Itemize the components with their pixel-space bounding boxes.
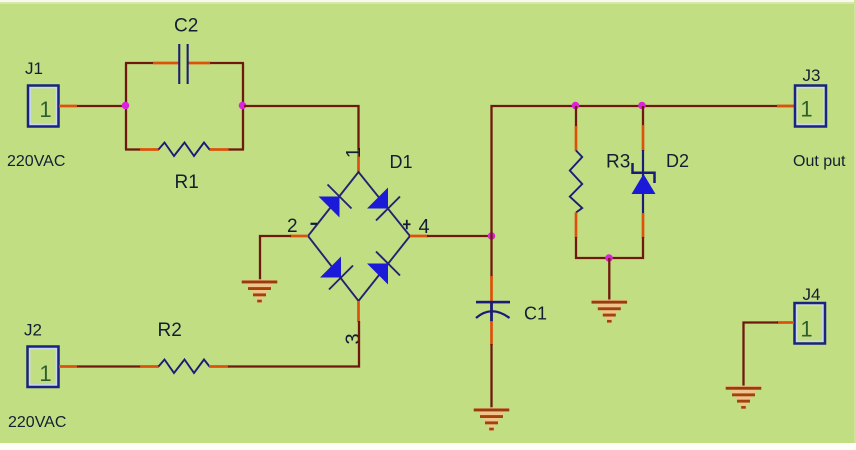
wire RC loop right vertical [242,63,244,150]
svg-text:J4: J4 [803,285,821,304]
pin D1-1 [357,150,360,172]
wire node B to bridge top [244,106,359,151]
capacitor C2 [153,44,210,84]
svg-text:220VAC: 220VAC [7,153,65,170]
pin J1-1 [59,105,77,108]
svg-text:R2: R2 [158,320,182,341]
wire node C down to C1 [490,236,492,278]
pin J3-1 [777,105,794,108]
svg-text:1: 1 [800,317,812,342]
zener diode D2 [632,106,656,259]
diode D1 bottom-right [367,252,400,285]
svg-text:2: 2 [287,216,298,237]
top white border line [0,0,856,2]
svg-text:220VAC: 220VAC [8,414,66,431]
plus sign [403,220,411,230]
svg-text:J1: J1 [25,59,43,78]
svg-text:D1: D1 [390,152,413,172]
connector J3 [795,86,826,127]
svg-text:1: 1 [800,97,812,122]
node D junction (R3 tap) [572,102,580,110]
node A junction [122,102,130,110]
resistor R2 [140,360,229,374]
svg-text:1: 1 [39,361,51,386]
wire R2 to bridge pin3 [228,321,359,367]
svg-text:Out put: Out put [793,153,846,170]
pin C1 bottom [490,321,493,345]
connector J4 [795,303,826,344]
svg-text:D2: D2 [666,151,689,171]
wire node F to ground [608,258,610,301]
wire J2 to R2 [77,365,141,367]
svg-text:C1: C1 [524,304,547,324]
minus sign [311,223,318,225]
wire J4 to ground [744,323,779,388]
wire C1 to ground [490,344,492,409]
diode D1 bottom-left [320,257,353,290]
svg-text:1: 1 [39,97,51,122]
node B junction [239,102,247,110]
resistor R1 [140,143,229,157]
pin C1 top [490,276,493,301]
right edge light strip [854,0,856,443]
wire RC loop bottom right segment [228,148,244,150]
wire pin2 to ground [260,236,291,281]
wire RC loop top right segment [209,62,244,64]
connector J2 [28,347,59,388]
resistor R3 [570,106,582,259]
pin J2-1 [59,365,77,368]
pin D1-3 [357,301,360,322]
bridge D1 outline [308,172,410,301]
ground (C1) [473,407,510,431]
svg-text:J3: J3 [803,66,821,85]
ground (bridge minus) [241,279,278,303]
svg-text:1: 1 [343,147,365,158]
ground (J4) [725,386,762,410]
pin J4-1 [777,321,794,324]
wire R3/D2 bottom join [575,257,644,259]
svg-text:J2: J2 [24,321,42,340]
wire RC loop top left segment [125,62,154,64]
connector J1 [28,86,59,127]
wire pin4 to node C [427,235,493,237]
svg-text:R3: R3 [606,152,630,173]
node E junction (D2 tap) [638,102,646,110]
svg-text:C2: C2 [174,16,198,37]
wire RC loop left vertical [125,63,127,150]
diode D1 top-right [367,188,400,221]
svg-text:R1: R1 [175,172,199,193]
svg-text:4: 4 [419,216,430,238]
wire RC loop bottom left segment [125,148,141,150]
node F junction [605,254,613,262]
bottom white strip [0,443,856,450]
wire rail up from node C [492,106,796,237]
svg-text:3: 3 [343,333,365,344]
pin D1-2 [290,235,308,238]
pin D1-4 [410,235,428,238]
diode D1 top-left [319,185,352,218]
ground (R3/D2) [591,300,628,324]
node C junction [488,232,496,240]
capacitor C1 [476,301,510,322]
wire J1 to node A [77,105,127,107]
